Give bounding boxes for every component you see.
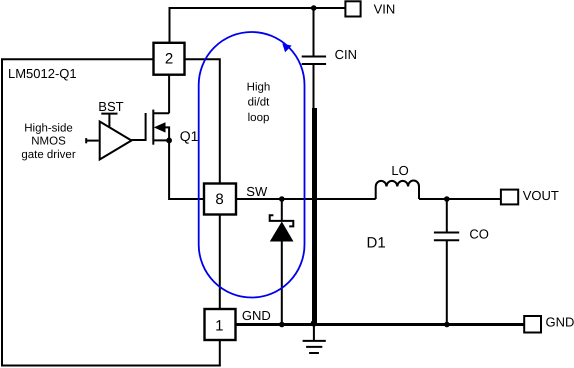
svg-text:2: 2 [165,51,173,68]
svg-text:D1: D1 [367,235,386,252]
svg-text:CO: CO [469,226,489,241]
svg-text:VIN: VIN [374,1,396,16]
svg-text:Q1: Q1 [180,128,199,144]
svg-text:GND: GND [242,308,271,323]
svg-text:di/dt: di/dt [248,97,271,109]
svg-text:High-side: High-side [24,123,73,135]
svg-text:CIN: CIN [335,47,357,62]
svg-text:gate driver: gate driver [21,149,76,161]
svg-text:8: 8 [215,191,223,208]
svg-text:GND: GND [546,315,574,330]
svg-text:VOUT: VOUT [523,188,559,203]
svg-text:SW: SW [246,184,268,199]
svg-text:High: High [247,81,271,93]
svg-text:BST: BST [98,99,123,114]
svg-text:LO: LO [391,163,408,178]
svg-text:NMOS: NMOS [31,136,66,148]
svg-text:loop: loop [248,112,270,124]
svg-text:LM5012-Q1: LM5012-Q1 [8,66,77,81]
svg-text:1: 1 [215,318,223,335]
